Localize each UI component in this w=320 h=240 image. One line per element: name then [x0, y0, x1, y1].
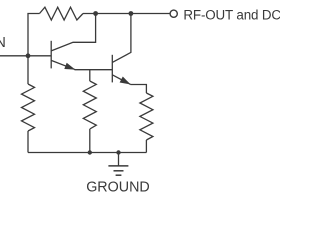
wire: RF input lead [0, 55, 51, 57]
transistor Q1 emitter arrowhead [64, 63, 75, 70]
terminal: RF-OUT open circle [170, 10, 177, 17]
transistor Q2 base bar [111, 55, 113, 83]
transistor Q2 emitter arrowhead [120, 77, 131, 85]
transistor Q1 base bar [50, 41, 52, 69]
wire: top rail to output terminal [83, 13, 170, 15]
wire: R3 bottom lead [145, 140, 147, 153]
resistor R2 (middle) [83, 81, 96, 129]
resistor R3 (right, emitter) [140, 93, 153, 140]
node: Q1 collector on top rail [93, 11, 98, 16]
transistor Q2 emitter diagonal [112, 75, 130, 85]
resistor R4 (top feedback) [40, 7, 84, 20]
svg-text:GROUND: GROUND [86, 180, 150, 196]
svg-text:RF-OUT and DC-IN: RF-OUT and DC-IN [183, 7, 280, 22]
node: R2 on ground rail [88, 150, 92, 154]
node: Q2 collector on top rail [129, 11, 134, 16]
ground symbol stem [118, 153, 120, 166]
transistor Q2 collector path up to top rail [112, 14, 131, 63]
node: ground stem on rail [116, 150, 120, 154]
resistor R1 (left, input bias) [22, 84, 35, 131]
node: input junction [26, 53, 31, 58]
wire: left vertical from top rail corner down through input node to R1 [28, 14, 40, 85]
wire: ground rail [28, 152, 146, 154]
wire: Q1 emitter to Q2 base [75, 69, 113, 71]
wire: R2 bottom lead [89, 129, 91, 153]
wire: R2 top stub [89, 70, 91, 81]
transistor Q1 emitter diagonal [51, 60, 75, 69]
transistor Q1 collector path up to top rail [51, 14, 95, 51]
svg-text:RF-IN: RF-IN [0, 35, 6, 51]
ground symbol bars [108, 165, 128, 167]
wire: Q2 emitter to R3 [131, 85, 147, 94]
wire: R1 bottom lead [27, 131, 29, 153]
